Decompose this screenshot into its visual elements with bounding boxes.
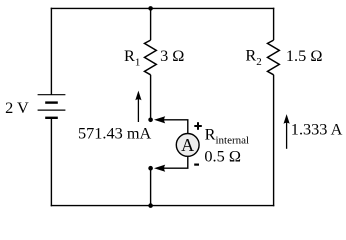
svg-text:3 Ω: 3 Ω <box>160 46 184 65</box>
svg-text:2 V: 2 V <box>5 98 29 117</box>
wire top <box>51 7 275 9</box>
svg-text:1.5 Ω: 1.5 Ω <box>286 46 323 65</box>
plus sign <box>194 122 202 130</box>
svg-text:0.5 Ω: 0.5 Ω <box>204 146 241 165</box>
arrowhead into upper node <box>154 116 165 123</box>
wire middle upper <box>150 8 152 40</box>
wire middle lower node to bottom <box>150 168 152 205</box>
wire left upper <box>50 8 52 95</box>
svg-text:R2: R2 <box>245 46 261 68</box>
resistor R2 <box>268 40 280 75</box>
wire right <box>273 8 275 40</box>
svg-text:A: A <box>181 135 194 155</box>
node top <box>148 6 153 11</box>
wire bottom <box>51 205 275 207</box>
battery B1 <box>38 95 66 118</box>
ammeter loop bottom wire <box>163 157 188 168</box>
svg-text:1.333 A: 1.333 A <box>291 120 343 139</box>
node bottom <box>148 203 153 208</box>
arrowhead into lower node <box>154 165 165 172</box>
current arrow 571.43 mA <box>135 91 141 122</box>
ammeter U1 circle <box>176 134 199 157</box>
resistor R1 <box>145 40 157 75</box>
svg-text:Rinternal: Rinternal <box>205 124 249 146</box>
svg-text:R1: R1 <box>124 46 140 69</box>
node lower middle <box>148 166 153 171</box>
current arrow 1.333 A <box>284 114 290 149</box>
node upper middle <box>148 118 153 123</box>
svg-text:571.43 mA: 571.43 mA <box>78 124 152 143</box>
ammeter loop top wire <box>163 120 188 133</box>
minus sign <box>194 164 199 166</box>
wire middle R1 to node <box>150 75 152 120</box>
wire left lower <box>50 118 52 207</box>
